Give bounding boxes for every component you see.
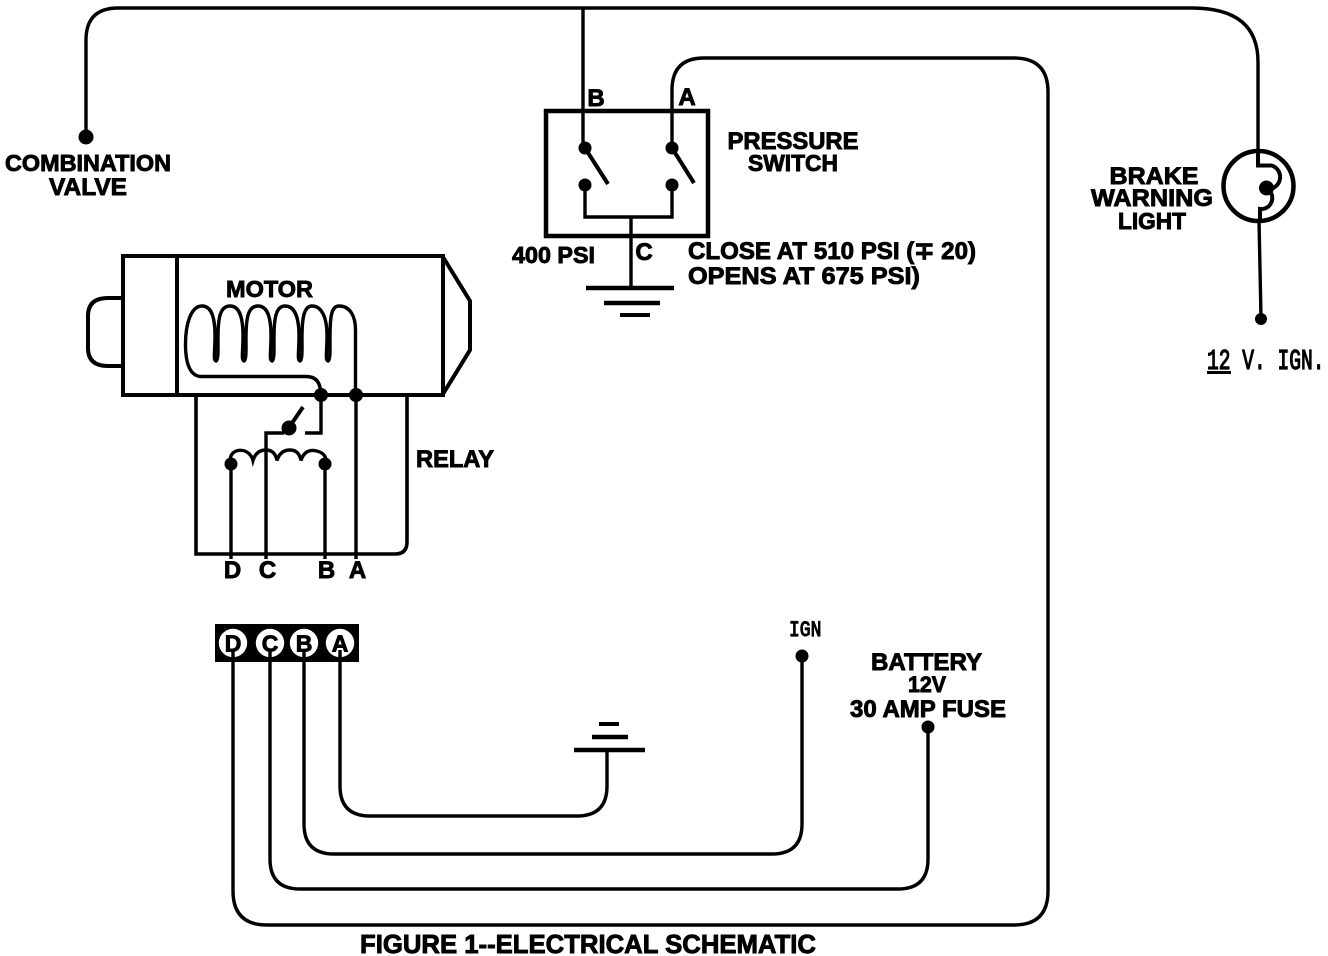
node: battery terminal dot <box>922 721 935 734</box>
connector socket C <box>256 629 284 657</box>
relay terminal A wire <box>354 395 357 559</box>
node: motor-relay junction dot 1 <box>314 388 328 402</box>
svg-text:12V: 12V <box>908 672 946 697</box>
svg-text:OPENS AT 675 PSI): OPENS AT 675 PSI) <box>688 263 920 290</box>
svg-text:C: C <box>259 557 276 584</box>
svg-text:A: A <box>332 631 349 657</box>
svg-text:A: A <box>349 557 366 584</box>
ground (pressure switch C) <box>586 286 674 291</box>
label: IGN <box>789 618 821 643</box>
motor right cap <box>443 257 470 394</box>
ground (chassis, connector A) <box>574 748 645 753</box>
node: filament contact dot <box>1259 181 1274 196</box>
svg-text:RELAY: RELAY <box>416 447 494 473</box>
connector socket B <box>290 629 318 657</box>
svg-text:D: D <box>224 557 241 584</box>
svg-text:30 AMP FUSE: 30 AMP FUSE <box>850 696 1006 723</box>
relay coil <box>230 450 325 464</box>
wire: terminal A loop (pressure switch A - right side - bottom - connector D) <box>233 58 1048 925</box>
connector J1 block <box>215 624 359 662</box>
underline under 12 <box>1207 371 1231 374</box>
relay terminal D wire <box>229 464 232 559</box>
relay fixed contact from junction 1 <box>305 395 321 433</box>
motor M1 body <box>123 256 443 395</box>
node: motor-relay junction dot 2 <box>349 388 363 402</box>
motor shaft boss <box>88 298 123 366</box>
svg-text:MOTOR: MOTOR <box>226 276 313 302</box>
node: IGN terminal dot <box>796 650 809 663</box>
svg-text:C: C <box>635 239 652 266</box>
connector socket A <box>326 629 354 657</box>
motor end-cap divider <box>175 256 179 395</box>
relay pivot wire to terminal C <box>266 433 284 559</box>
svg-text:SWITCH: SWITCH <box>748 150 838 176</box>
label: 12 V. IGN. <box>1207 347 1325 378</box>
motor winding coil <box>186 306 356 391</box>
svg-text:CLOSE AT 510 PSI (∓ 20): CLOSE AT 510 PSI (∓ 20) <box>688 238 976 265</box>
node: relay coil right dot <box>319 458 332 471</box>
svg-text:A: A <box>678 84 695 111</box>
wire: pressure switch common bus to C terminal <box>585 188 672 217</box>
wire: lamp to 12V IGN terminal <box>1259 220 1261 318</box>
svg-text:FIGURE 1--ELECTRICAL SCHEMATIC: FIGURE 1--ELECTRICAL SCHEMATIC <box>360 929 816 956</box>
relay terminal B wire <box>323 464 326 559</box>
svg-text:B: B <box>296 631 313 657</box>
relay switch blade <box>288 407 303 429</box>
node: combination valve terminal dot <box>79 130 94 145</box>
svg-text:B: B <box>587 85 604 112</box>
brake warning light lamp <box>1224 151 1294 221</box>
relay K1 box <box>196 396 407 554</box>
svg-text:COMBINATION: COMBINATION <box>5 150 171 176</box>
svg-text:B: B <box>318 557 335 584</box>
svg-text:D: D <box>225 631 242 657</box>
connector socket D <box>219 629 247 657</box>
wire: terminal B drop from top bus to pressure switch <box>581 8 584 148</box>
pressure switch U1 box <box>546 111 708 236</box>
lamp filament <box>1258 151 1280 221</box>
svg-text:IGN: IGN <box>789 618 821 643</box>
wire: connector C to battery fuse <box>270 650 928 889</box>
wire: C stem to ground <box>629 217 632 288</box>
wire: connector A to chassis ground <box>340 650 607 816</box>
svg-text:C: C <box>262 631 279 657</box>
wire: connector B to IGN <box>304 650 802 854</box>
wire: top bus from combination valve to brake warning light <box>86 8 1258 152</box>
node: relay coil left dot <box>225 458 238 471</box>
pressure switch contact A: dot, blade, dot <box>666 142 679 155</box>
svg-text:VALVE: VALVE <box>49 174 127 201</box>
node: relay blade pivot <box>282 421 297 436</box>
node: 12V IGN terminal dot <box>1255 313 1267 325</box>
pressure switch contact B: dot, blade, dot <box>579 142 592 155</box>
svg-text:400 PSI: 400 PSI <box>512 242 595 268</box>
svg-text:LIGHT: LIGHT <box>1118 208 1186 234</box>
